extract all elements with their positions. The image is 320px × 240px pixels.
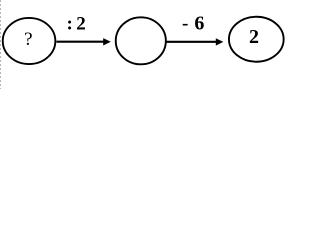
arrowhead 1 (103, 38, 111, 45)
dashed gridline left edge (0, 0, 2, 89)
ellipse node 1 (3, 18, 56, 64)
wire arrow 1 shaft (57, 41, 105, 43)
ellipse node 3 (229, 17, 284, 62)
svg-text:6: 6 (194, 13, 204, 35)
svg-text:2: 2 (76, 14, 86, 35)
ellipse node 2 (116, 17, 166, 64)
wire arrow 2 shaft (167, 41, 218, 43)
svg-text:2: 2 (249, 26, 259, 48)
svg-text:?: ? (24, 29, 32, 50)
svg-text:-: - (182, 13, 188, 34)
svg-text::: : (67, 14, 73, 35)
arrowhead 2 (216, 38, 224, 45)
